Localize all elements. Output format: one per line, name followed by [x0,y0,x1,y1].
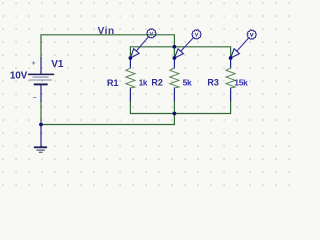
probe 3 circle [247,30,256,39]
battery V1 lead top [40,58,42,74]
resistor R1 leads [129,58,131,100]
wire R2 top stub [173,47,175,58]
battery + mark [32,62,35,65]
battery - mark [33,97,36,99]
svg-text:Vin: Vin [98,26,115,37]
svg-text:R1: R1 [107,78,119,88]
battery V1 plate 1 (long +) [29,73,54,75]
svg-text:V1: V1 [51,59,64,70]
battery V1 plate 4 (short -) [35,83,47,85]
ground bar 3 [39,151,42,153]
battery V1 plate 3 (long) [29,79,51,81]
probe 3 arrowhead [231,49,240,58]
wire R2 bottom stub [173,100,175,114]
resistor R2 zigzag [170,68,179,88]
ground bar 2 [37,149,44,151]
node A: ground junction [39,123,43,127]
battery V1 lead bottom [40,85,42,101]
probe 3 glyph V [250,33,253,36]
wire ground return to battery- [41,101,174,125]
probe 1 circle [147,29,156,38]
svg-text:1k: 1k [139,79,148,88]
probe 2 circle [192,30,201,39]
svg-text:10V: 10V [10,71,28,82]
svg-text:R3: R3 [207,78,219,88]
probe 1 arrowhead [130,49,139,58]
resistor R2 leads [173,58,175,100]
svg-text:15k: 15k [234,78,248,88]
node C: Vin drop / R2 top junction [173,45,177,49]
probe 1 line [136,37,148,51]
node E: bottom rail junction [173,112,177,116]
probe 2 glyph V [195,33,198,36]
resistor R1 zigzag [126,68,135,88]
wire Vin top: battery+ up to top rail [41,35,174,58]
probe 3 line [237,38,249,51]
node F: R3 probe node [229,56,233,60]
probe 2 arrowhead [174,49,183,58]
wire top rail between resistor tops [130,47,230,58]
ground bar 1 [35,146,46,148]
ground lead [40,125,42,148]
probe 1 glyph V [150,32,153,35]
wire bottom rail R1-R2-R3 [130,100,230,114]
svg-text:R2: R2 [151,78,163,88]
resistor R3 leads [230,58,232,100]
node D: R2 probe node [173,56,177,60]
svg-text:5k: 5k [183,78,192,88]
resistor R3 zigzag [226,68,235,88]
battery V1 plate 2 (short) [33,76,48,78]
node B: R1 probe node [129,56,133,60]
probe 2 line [181,38,194,51]
